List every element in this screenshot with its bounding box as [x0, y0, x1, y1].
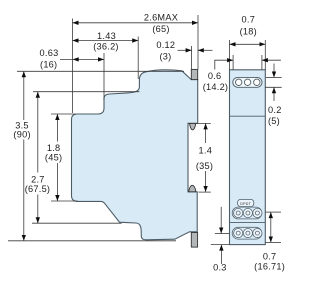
dimension 2.7 (67.5) [25, 92, 51, 224]
svg-text:(3): (3) [160, 51, 172, 61]
dimension 0.63 (16) [40, 48, 104, 69]
dimension 0.12 (3) tab thickness [156, 40, 212, 61]
front view: section divider line [230, 222, 266, 224]
extension line: tab left edge (0.12 ref) [191, 46, 193, 69]
extension line: front view right edge [264, 40, 266, 70]
svg-text:2.7: 2.7 [31, 175, 45, 185]
extension line: rail rear face (2.6 ref) [197, 15, 199, 69]
svg-text:(45): (45) [45, 153, 62, 163]
dimension 1.4 (35) DIN notch spacing [188, 123, 213, 192]
front view: top terminal screw 1 [236, 79, 242, 85]
front view: top terminal screw 2 [244, 79, 250, 85]
front view: DPDT label [238, 199, 254, 206]
svg-text:0.7: 0.7 [263, 251, 277, 261]
extension line: body left face [72, 19, 74, 114]
dimension 3.5 (90) overall height [13, 71, 30, 241]
front view: bottom terminal screw 2 [243, 229, 252, 238]
svg-text:(18): (18) [240, 26, 257, 36]
front view: bottom terminal block [232, 227, 262, 239]
svg-text:0.12: 0.12 [156, 40, 175, 50]
svg-text:(16.71): (16.71) [254, 261, 285, 271]
dimension 0.2 (5) terminal block height [265, 64, 282, 127]
extension line: bottom of module (3.5 ref) [8, 240, 176, 242]
front view: middle terminal screw 1 [234, 208, 243, 217]
front view: middle terminal screw 2 [243, 208, 252, 217]
svg-text:1.8: 1.8 [47, 143, 61, 153]
extension line: step face (0.63 ref) [103, 53, 105, 100]
extension line: terminal block right end [261, 55, 263, 70]
dimension 1.8 (45) [45, 114, 62, 201]
extension line: front view left edge [229, 40, 231, 70]
svg-text:(16): (16) [40, 59, 57, 69]
svg-text:(5): (5) [268, 116, 280, 126]
svg-text:(14.2): (14.2) [203, 82, 229, 92]
side view: upper DIN clip notch [190, 123, 196, 129]
extension line: upper face (1.43 ref) [137, 37, 139, 80]
svg-text:(65): (65) [152, 24, 169, 34]
svg-text:0.7: 0.7 [242, 15, 256, 25]
svg-text:0.3: 0.3 [213, 262, 227, 272]
extension line: terminal block left end [232, 55, 234, 70]
front view: top terminal block [233, 77, 262, 87]
front view: middle terminal block [232, 207, 262, 219]
dimension 0.3 bottom offset [211, 207, 230, 272]
svg-text:2.6MAX: 2.6MAX [144, 13, 178, 23]
front view: bottom terminal screw 3 [253, 229, 262, 238]
extension line: 2.7 bottom reference [32, 222, 122, 224]
dimension 1.43 (36.2) [73, 31, 139, 51]
svg-text:(90): (90) [13, 129, 30, 139]
dimension 0.7 (18) module width [230, 15, 266, 45]
side view: module body silhouette [72, 70, 198, 240]
front view: module outline [230, 70, 266, 245]
extension line: top of module (3.5 ref) [17, 70, 184, 72]
side view: bottom DIN-rail tab [191, 233, 197, 248]
svg-text:0.63: 0.63 [40, 48, 59, 58]
svg-text:1.43: 1.43 [97, 31, 116, 41]
side view: top DIN-rail tab [191, 69, 197, 79]
front view: section divider line [230, 115, 266, 117]
dimension 2.6MAX (65) overall depth [73, 13, 199, 34]
dimension 0.6 (14.2) terminal block width [203, 60, 281, 92]
extension line: 2.7 top reference [33, 91, 139, 93]
extension line: 1.8 bottom reference [51, 200, 78, 202]
svg-text:0.6: 0.6 [208, 71, 222, 81]
front view: middle terminal screw 3 [253, 208, 262, 217]
side view: lower DIN clip notch [189, 185, 196, 192]
svg-text:(35): (35) [196, 161, 213, 171]
extension line: 1.8 top reference [51, 113, 76, 115]
svg-text:(67.5): (67.5) [25, 184, 51, 194]
front view: bottom terminal screw 1 [234, 229, 243, 238]
svg-text:0.2: 0.2 [268, 105, 282, 115]
svg-text:1.4: 1.4 [199, 145, 213, 155]
svg-text:DPDT: DPDT [240, 202, 251, 206]
dimension 0.7 (16.71) terminal span [254, 212, 285, 271]
svg-text:(36.2): (36.2) [93, 41, 119, 51]
front view: top terminal screw 3 [254, 79, 260, 85]
